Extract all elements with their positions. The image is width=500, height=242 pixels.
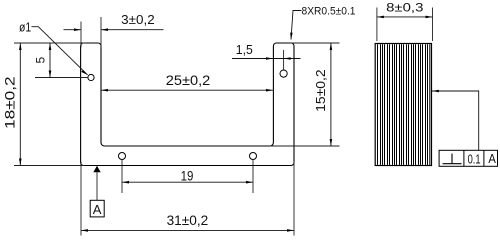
hole bottom-right — [250, 153, 257, 160]
ext hole centerline vertical (1,5 dim) — [283, 50, 285, 70]
ext hole centerline horizontal (5 dim) — [35, 77, 88, 79]
ext inner bottom extended right (15 dim bottom) — [270, 145, 340, 147]
arrow leader FCF left — [432, 90, 439, 93]
ext left edge extended down (31 dim left) — [80, 162, 82, 236]
dim line 1,5 — [232, 58, 301, 60]
arrow 18dim up — [19, 43, 22, 50]
arrowheads — [19, 16, 439, 232]
FCF perpendicularity symbol — [443, 154, 462, 164]
dim line 8±0,3 — [377, 16, 433, 18]
ext side view right (8 dim) — [432, 8, 434, 42]
extension lines — [14, 8, 433, 236]
arrow 19dim right — [246, 181, 253, 184]
ext bottom edge extended left (18 dim bottom) — [14, 165, 85, 167]
arrow 5dim down — [49, 71, 52, 78]
arrow 5dim up — [49, 43, 52, 50]
dim line 18±0,2 — [19, 43, 21, 166]
arrow 15dim up — [330, 43, 333, 50]
arrow 31dim left — [81, 229, 88, 232]
feature control frame box — [439, 150, 497, 166]
arrow leader 8XR down — [290, 33, 293, 40]
arrow 1,5dim tip right at 273 — [266, 57, 273, 60]
dim line 31±0,2 — [81, 229, 294, 231]
leader ø1 — [32, 27, 88, 75]
dim line 15±0,2 — [330, 43, 332, 146]
side view vertical hatch lines — [378, 44, 430, 165]
ext top edge extended right (15 dim top) — [291, 42, 340, 44]
datum A box — [90, 200, 104, 217]
side view rectangle — [375, 44, 431, 166]
svg-text:15±0,2: 15±0,2 — [313, 69, 328, 112]
leader FCF — [432, 91, 479, 150]
svg-text:5: 5 — [34, 57, 48, 64]
leader 8XR0.5±0.1 — [291, 11, 302, 40]
datum A triangle — [93, 166, 100, 172]
hole bottom-left — [119, 153, 126, 160]
svg-text:25±0,2: 25±0,2 — [166, 73, 211, 88]
arrow 15dim down — [330, 139, 333, 146]
arrow 31dim right — [287, 229, 294, 232]
ext right edge extended down (31 dim right) — [293, 162, 295, 236]
dim line 5 — [49, 43, 51, 78]
arrow 18dim down — [19, 159, 22, 166]
ext line x101 above top (3 dim right) — [100, 17, 102, 48]
arrow 3dim left tip right — [74, 28, 81, 31]
svg-text:18±0,2: 18±0,2 — [2, 76, 18, 129]
arrow leader ø1 diagonal — [81, 70, 88, 75]
svg-text:A: A — [488, 151, 496, 166]
svg-text:ø1: ø1 — [19, 21, 31, 35]
hole top-left ø1 — [88, 74, 94, 80]
FCF divider 1 — [463, 150, 465, 166]
arrow 8dim right — [426, 16, 433, 19]
svg-text:8±0,3: 8±0,3 — [386, 0, 424, 14]
arrow 3dim right tip left — [101, 28, 108, 31]
dim line 19 — [122, 181, 253, 183]
hole top-right — [280, 70, 287, 77]
part outline front view U-channel — [81, 43, 294, 166]
ext stem below hole bottom-right (19 dim) — [252, 160, 254, 193]
arrow 19dim left — [122, 181, 129, 184]
dim line 25±0,2 — [101, 89, 273, 91]
svg-text:31±0,2: 31±0,2 — [167, 213, 209, 228]
arrow 25dim left — [101, 89, 108, 92]
svg-text:1,5: 1,5 — [236, 43, 253, 57]
svg-text:19: 19 — [181, 167, 194, 183]
arrow 1,5dim tip left at 283.6 — [284, 57, 291, 60]
FCF divider 2 — [483, 150, 485, 166]
arrow 8dim left — [377, 16, 384, 19]
ext side view left (8 dim) — [376, 8, 378, 42]
svg-text:3±0,2: 3±0,2 — [121, 13, 155, 27]
svg-text:8XR0.5±0.1: 8XR0.5±0.1 — [302, 5, 356, 17]
ext line x81 above top (3 dim left) — [80, 22, 82, 48]
ext top edge extended left (18 dim top) — [14, 42, 85, 44]
svg-text:A: A — [93, 202, 102, 217]
ext stem below hole bottom-left (19 dim) — [121, 160, 123, 193]
arrow 25dim right — [266, 89, 273, 92]
datum A stem — [96, 172, 98, 200]
svg-text:0.1: 0.1 — [468, 152, 481, 167]
dim line 3±0,2 — [64, 29, 164, 31]
